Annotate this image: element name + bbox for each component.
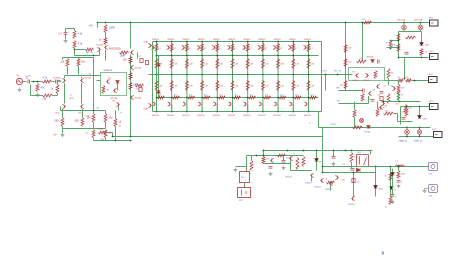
transistor Q21 1 xyxy=(152,45,155,49)
inductor L1 1 xyxy=(396,165,405,167)
wire col 7 top 1 xyxy=(247,42,249,75)
junction 96 xyxy=(351,150,353,152)
resistor RB1 1 xyxy=(155,44,158,52)
wire 56 xyxy=(362,23,364,61)
transistor Q25 1 xyxy=(212,45,215,49)
wire 72 xyxy=(398,32,400,58)
resistor RB14 1 xyxy=(173,96,180,99)
svg-text:MJ2955: MJ2955 xyxy=(213,115,221,117)
resistor R34 1 xyxy=(387,69,390,79)
transistor Q7 1 xyxy=(130,65,133,69)
junction 58 xyxy=(292,41,294,43)
wire 18 xyxy=(74,49,76,56)
resistor RB17 1 xyxy=(218,96,225,99)
transistor Q20 1 xyxy=(393,86,396,90)
svg-text:4.7k: 4.7k xyxy=(43,77,48,80)
resistor RE3 1 xyxy=(185,59,188,69)
resistor RB20 1 xyxy=(264,96,271,99)
resistor R48 1 xyxy=(397,85,400,93)
junction 20 xyxy=(171,74,173,76)
svg-text:2N3055: 2N3055 xyxy=(198,39,206,41)
wire 51 xyxy=(137,53,139,59)
wire to BT4 1 xyxy=(401,106,430,108)
transistor Q23 1 xyxy=(182,45,185,49)
resistor RE1 1 xyxy=(155,59,158,69)
svg-text:OUT: OUT xyxy=(323,71,328,73)
wire 62 xyxy=(398,81,400,85)
resistor R43 1 xyxy=(420,49,423,56)
junction 76 xyxy=(390,40,392,42)
transistor Q29 1 xyxy=(273,45,276,49)
battery BT2 1 xyxy=(430,54,439,60)
transistor Q12 1 xyxy=(104,45,107,49)
svg-text:2N3055: 2N3055 xyxy=(213,39,221,41)
svg-text:MJ2955: MJ2955 xyxy=(274,115,282,117)
junction 97 xyxy=(256,155,258,157)
connector J1 1 xyxy=(426,163,438,171)
wire 37 xyxy=(93,123,95,129)
junction 19 xyxy=(171,55,173,57)
svg-text:BC557: BC557 xyxy=(315,187,322,189)
wire 106 xyxy=(392,169,394,173)
svg-text:1k: 1k xyxy=(385,176,387,178)
resistor R33 1 xyxy=(374,71,377,79)
wire feedback 1 xyxy=(31,95,43,97)
resistor R32 1 xyxy=(357,60,367,63)
junction 53 xyxy=(277,41,279,43)
capacitor C20 1 xyxy=(380,97,383,101)
wire col 7 bottom 1 xyxy=(247,75,249,112)
junction 102 xyxy=(398,166,400,168)
resistor RE16 1 xyxy=(201,81,204,91)
transistor Q26 1 xyxy=(228,45,231,49)
junction 6 xyxy=(37,81,39,83)
svg-text:F1 5A: F1 5A xyxy=(365,131,371,134)
svg-text:100: 100 xyxy=(109,117,114,120)
wire col 1 bottom 1 xyxy=(156,75,158,112)
junction 69 xyxy=(337,74,339,76)
wire 81 xyxy=(400,107,402,125)
transistor Q10 1 xyxy=(113,88,116,92)
svg-text:10k: 10k xyxy=(266,159,269,161)
transistor Q31 1 xyxy=(304,45,307,49)
wire col 3 top 1 xyxy=(186,42,188,75)
resistor R30 1 xyxy=(344,45,347,53)
diode D6 1 xyxy=(418,116,422,119)
svg-text:+45: +45 xyxy=(89,25,94,28)
svg-text:BC547: BC547 xyxy=(326,189,333,191)
junction 10 xyxy=(115,140,117,142)
svg-text:BC556: BC556 xyxy=(353,80,359,82)
transistor Q47 1 xyxy=(244,102,247,106)
svg-text:MJ2955: MJ2955 xyxy=(289,115,297,117)
transistor Q33 1 xyxy=(329,181,332,185)
wire to BT2 1 xyxy=(399,57,429,59)
resistor RE19 1 xyxy=(246,81,249,91)
resistor RE2 1 xyxy=(170,59,173,69)
wire prot bottom 1 xyxy=(323,172,376,174)
junction 63 xyxy=(308,41,310,43)
svg-text:2N3055: 2N3055 xyxy=(182,39,190,41)
junction 56 xyxy=(277,97,279,99)
wire 67 xyxy=(394,113,398,115)
wire 1 xyxy=(318,112,320,128)
ammeter AM1 1 xyxy=(402,25,407,30)
junction 16 xyxy=(156,97,158,99)
transistor Q6 1 xyxy=(106,79,109,83)
junction 22 xyxy=(171,111,173,113)
capacitor C14 1 xyxy=(282,161,286,163)
junction 41 xyxy=(232,97,234,99)
wire col 10 bottom 1 xyxy=(292,75,294,112)
junction 52 xyxy=(262,111,264,113)
svg-text:4.7u: 4.7u xyxy=(357,182,361,184)
wire 6 xyxy=(130,55,132,137)
junction 86 xyxy=(406,127,408,129)
resistor R25 1 xyxy=(120,51,129,54)
resistor R35 1 xyxy=(398,79,404,82)
junction 85 xyxy=(419,106,421,108)
junction 2 xyxy=(105,22,107,24)
wire to speaker 1 xyxy=(323,166,429,168)
wire 7 xyxy=(23,81,27,83)
resistor RB13 1 xyxy=(158,96,165,99)
svg-text:2N3055: 2N3055 xyxy=(258,39,266,41)
junction 32 xyxy=(201,111,203,113)
wire 50 xyxy=(117,84,119,91)
wire 22 xyxy=(62,58,64,60)
junction 84 xyxy=(406,106,408,108)
junction 33 xyxy=(216,41,218,43)
wire 48 xyxy=(97,80,101,82)
transistor Q15 driver 1 xyxy=(149,103,152,107)
transistor Q22 2 xyxy=(382,101,385,105)
resistor R36 1 xyxy=(406,79,412,82)
junction 38 xyxy=(232,41,234,43)
wire array bottom rail 1 xyxy=(153,111,322,113)
transistor Q19 1 xyxy=(376,84,379,88)
wire 5 xyxy=(130,23,132,49)
capacitor C1 1 xyxy=(28,80,30,84)
resistor R24 1 xyxy=(104,38,107,45)
wire 35 xyxy=(63,128,106,130)
transistor Q46 1 xyxy=(229,102,232,106)
junction 15 xyxy=(156,74,158,76)
junction 61 xyxy=(292,97,294,99)
transistor Q44 1 xyxy=(198,102,201,106)
junction 60 xyxy=(292,74,294,76)
junction 51 xyxy=(262,97,264,99)
resistor RB21 1 xyxy=(279,96,286,99)
capacitor C11 1 xyxy=(405,53,409,55)
resistor R39 1 xyxy=(361,94,364,102)
wire 83 xyxy=(419,128,421,130)
wire 74 xyxy=(391,40,399,42)
wire 21 xyxy=(75,55,100,57)
resistor R64 1 xyxy=(353,110,356,118)
wire col 8 bottom 1 xyxy=(262,75,264,112)
svg-text:BC557: BC557 xyxy=(349,204,356,206)
wire 12 xyxy=(53,95,58,97)
junction 26 xyxy=(186,97,188,99)
junction 37 xyxy=(216,111,218,113)
wire col 4 top 1 xyxy=(201,42,203,75)
svg-text:2N3055: 2N3055 xyxy=(274,39,282,41)
resistor R49 1 xyxy=(250,161,253,171)
wire col 7 em 1 xyxy=(247,104,249,112)
svg-text:LED: LED xyxy=(425,45,429,47)
junction 46 xyxy=(247,97,249,99)
capacitor C5 1 xyxy=(140,59,143,63)
resistor R22 1 xyxy=(136,84,144,87)
resistor RB19 1 xyxy=(249,96,256,99)
wire 85 xyxy=(419,135,421,137)
wire 31 xyxy=(61,110,106,112)
resistor R38 1 xyxy=(387,94,390,104)
resistor R31 1 xyxy=(344,59,347,67)
resistor R14 1 xyxy=(104,114,107,123)
wire col 2 bottom 1 xyxy=(171,75,173,112)
junction 21 xyxy=(171,97,173,99)
diode D4 1 xyxy=(371,60,375,63)
resistor RB3 1 xyxy=(185,44,188,52)
transistor Q3 1 xyxy=(80,78,83,82)
wire col 1 top 1 xyxy=(156,42,158,75)
capacitor C9 1 xyxy=(378,60,380,64)
wire 29 xyxy=(81,83,83,104)
svg-text:4.7k: 4.7k xyxy=(354,157,358,159)
transistor Q5 1 xyxy=(80,104,83,108)
junction 78 xyxy=(398,40,400,42)
transistor Q30 1 xyxy=(288,45,291,49)
resistor R13 1 xyxy=(92,114,95,123)
resistor R58 1 xyxy=(389,173,392,181)
junction 92 xyxy=(303,150,305,152)
junction 95 xyxy=(345,150,347,152)
resistor R53 1 xyxy=(296,158,299,170)
junction 66 xyxy=(308,97,310,99)
wire 45 xyxy=(64,76,66,79)
junction 49 xyxy=(262,55,264,57)
wire 105 xyxy=(398,167,400,171)
svg-text:10R: 10R xyxy=(408,108,412,110)
resistor R20 1 xyxy=(129,73,132,80)
junction 90 xyxy=(263,150,265,152)
wire 96 xyxy=(311,178,313,182)
resistor RE5 1 xyxy=(216,59,219,69)
resistor R2 1 xyxy=(43,80,52,83)
wire drop to protection 1 xyxy=(322,128,324,173)
wire 61 xyxy=(339,103,369,105)
junction 3 xyxy=(130,22,132,24)
resistor R11 1 xyxy=(61,118,64,127)
resistor R61 1 xyxy=(376,109,379,117)
resistor RE13 1 xyxy=(155,81,158,91)
junction 31 xyxy=(201,97,203,99)
diode D8 1 xyxy=(315,159,319,162)
svg-text:BC547: BC547 xyxy=(286,177,293,179)
resistor R47 1 xyxy=(344,81,347,89)
capacitor C6 1 xyxy=(145,61,148,65)
ground 2 xyxy=(36,93,40,97)
junction 30 xyxy=(201,74,203,76)
junction 40 xyxy=(232,74,234,76)
resistor RB7 1 xyxy=(246,44,249,52)
battery B6 1 xyxy=(238,188,251,198)
capacitor C12 1 xyxy=(402,118,406,120)
resistor RB5 1 xyxy=(216,44,219,52)
svg-text:MJE: MJE xyxy=(144,42,149,44)
wire 19 xyxy=(75,49,86,51)
svg-text:BC546: BC546 xyxy=(135,98,142,100)
capacitor C3 1 xyxy=(64,33,68,35)
junction 94 xyxy=(333,150,335,152)
junction 17 xyxy=(156,111,158,113)
junction 27 xyxy=(186,111,188,113)
diode D3 1 xyxy=(157,91,161,94)
junction 71 xyxy=(362,22,364,24)
wire meter top run 1 xyxy=(319,127,431,129)
junction 13 xyxy=(156,41,158,43)
junction 80 xyxy=(398,57,400,59)
wire col 4 em 1 xyxy=(201,104,203,112)
resistor RB18 1 xyxy=(234,96,241,99)
battery BT5 1 xyxy=(434,132,443,138)
junction 91 xyxy=(287,150,289,152)
junction 75 xyxy=(399,101,401,103)
wire 34 xyxy=(62,127,64,133)
junction 44 xyxy=(247,55,249,57)
svg-text:LED: LED xyxy=(423,119,427,121)
resistor R15 1 xyxy=(92,130,95,138)
junction 23 xyxy=(186,41,188,43)
wire bias string 1 xyxy=(158,56,160,98)
wire 71 xyxy=(354,118,356,128)
svg-text:BC547: BC547 xyxy=(306,183,313,185)
wire 65 xyxy=(383,101,421,103)
svg-text:22k: 22k xyxy=(340,85,343,87)
resistor RE8 1 xyxy=(261,59,264,69)
junction 9 xyxy=(93,110,95,112)
wire bottom base bus 1 xyxy=(157,97,319,99)
junction 64 xyxy=(308,55,310,57)
battery BT1 1 xyxy=(430,20,439,26)
capacitor C17 1 xyxy=(352,179,355,183)
relay RL1 1 xyxy=(357,155,369,167)
probe P1 1 xyxy=(360,119,364,123)
transistor Q27 1 xyxy=(243,45,246,49)
junction 73 xyxy=(414,80,416,82)
wire col 4 bottom 1 xyxy=(201,75,203,112)
junction 47 xyxy=(247,111,249,113)
junction 29 xyxy=(201,55,203,57)
resistor RB6 1 xyxy=(231,44,234,52)
resistor R6 1 xyxy=(73,41,76,49)
resistor R52 1 xyxy=(278,154,286,157)
junction 50 xyxy=(262,74,264,76)
resistor RE17 1 xyxy=(216,81,219,91)
wire col 2 top 1 xyxy=(171,42,173,75)
junction 8 xyxy=(93,55,95,57)
transistor Q13 1 xyxy=(130,50,133,54)
resistor R41 1 xyxy=(397,44,400,52)
transistor Q2 1 xyxy=(63,78,66,82)
wire 9 xyxy=(52,81,55,83)
ground 4 xyxy=(61,133,65,137)
resistor R55 1 xyxy=(327,181,335,184)
wire col 8 em 1 xyxy=(262,104,264,112)
wire 98 xyxy=(351,163,353,169)
junction 59 xyxy=(292,55,294,57)
wire 101 xyxy=(353,173,355,197)
wire 20 xyxy=(99,52,101,56)
resistor RE6 1 xyxy=(231,59,234,69)
ground 1 xyxy=(18,88,22,92)
resistor R63 1 xyxy=(384,112,394,115)
wire output rail 1 xyxy=(149,74,353,76)
wire 54 xyxy=(158,67,160,91)
svg-text:MJE: MJE xyxy=(144,109,149,111)
diode D9 1 xyxy=(374,186,378,189)
resistor R44 1 xyxy=(405,109,408,117)
junction 11 xyxy=(130,140,132,142)
ground 3 xyxy=(64,39,68,43)
resistor R65 rail 1 xyxy=(364,21,372,24)
wire 16 xyxy=(65,35,67,39)
junction 4 xyxy=(130,136,132,138)
svg-text:0V: 0V xyxy=(54,134,57,137)
wire 104 xyxy=(390,167,392,197)
wire 80 xyxy=(419,107,421,116)
ammeter AM3 1 xyxy=(405,130,410,135)
wire 41 xyxy=(105,138,107,141)
svg-text:BC556: BC556 xyxy=(364,80,370,82)
wire prot bus2 1 xyxy=(247,155,304,157)
resistor R16 1 xyxy=(104,130,107,138)
wire 63 xyxy=(398,93,400,101)
wire col 1 em 1 xyxy=(156,104,158,112)
resistor R3 1 xyxy=(43,94,53,97)
wire right V+ drop 1 xyxy=(345,23,347,91)
wire 53 xyxy=(112,133,114,137)
wire 26 xyxy=(58,80,61,82)
transistor Q4 1 xyxy=(63,104,66,108)
junction 72 xyxy=(404,78,406,80)
junction 57 xyxy=(277,111,279,113)
wire 39 xyxy=(105,123,107,129)
transistor Q14 driver 1 xyxy=(149,43,152,47)
svg-text:BD139: BD139 xyxy=(111,98,118,100)
wire 44 xyxy=(115,111,117,119)
svg-text:1k: 1k xyxy=(425,52,427,54)
wire prot top bus 1 xyxy=(264,150,373,152)
junction 70 xyxy=(345,22,347,24)
svg-text:MJ2955: MJ2955 xyxy=(258,115,266,117)
junction 39 xyxy=(232,55,234,57)
wire col 11 bottom 1 xyxy=(308,75,310,112)
svg-text:12V: 12V xyxy=(239,200,243,202)
resistor RB2 1 xyxy=(170,44,173,52)
block current mirror 1 xyxy=(101,73,127,96)
diode D1 1 xyxy=(116,81,120,84)
wire array right edge 1 xyxy=(321,42,323,112)
battery BT3 1 xyxy=(429,77,438,83)
svg-text:2N3055: 2N3055 xyxy=(243,39,251,41)
wire 95 xyxy=(316,162,318,171)
diode D2 1 xyxy=(157,64,161,67)
svg-text:BC556: BC556 xyxy=(54,78,61,80)
resistor R12 1 xyxy=(81,118,84,127)
